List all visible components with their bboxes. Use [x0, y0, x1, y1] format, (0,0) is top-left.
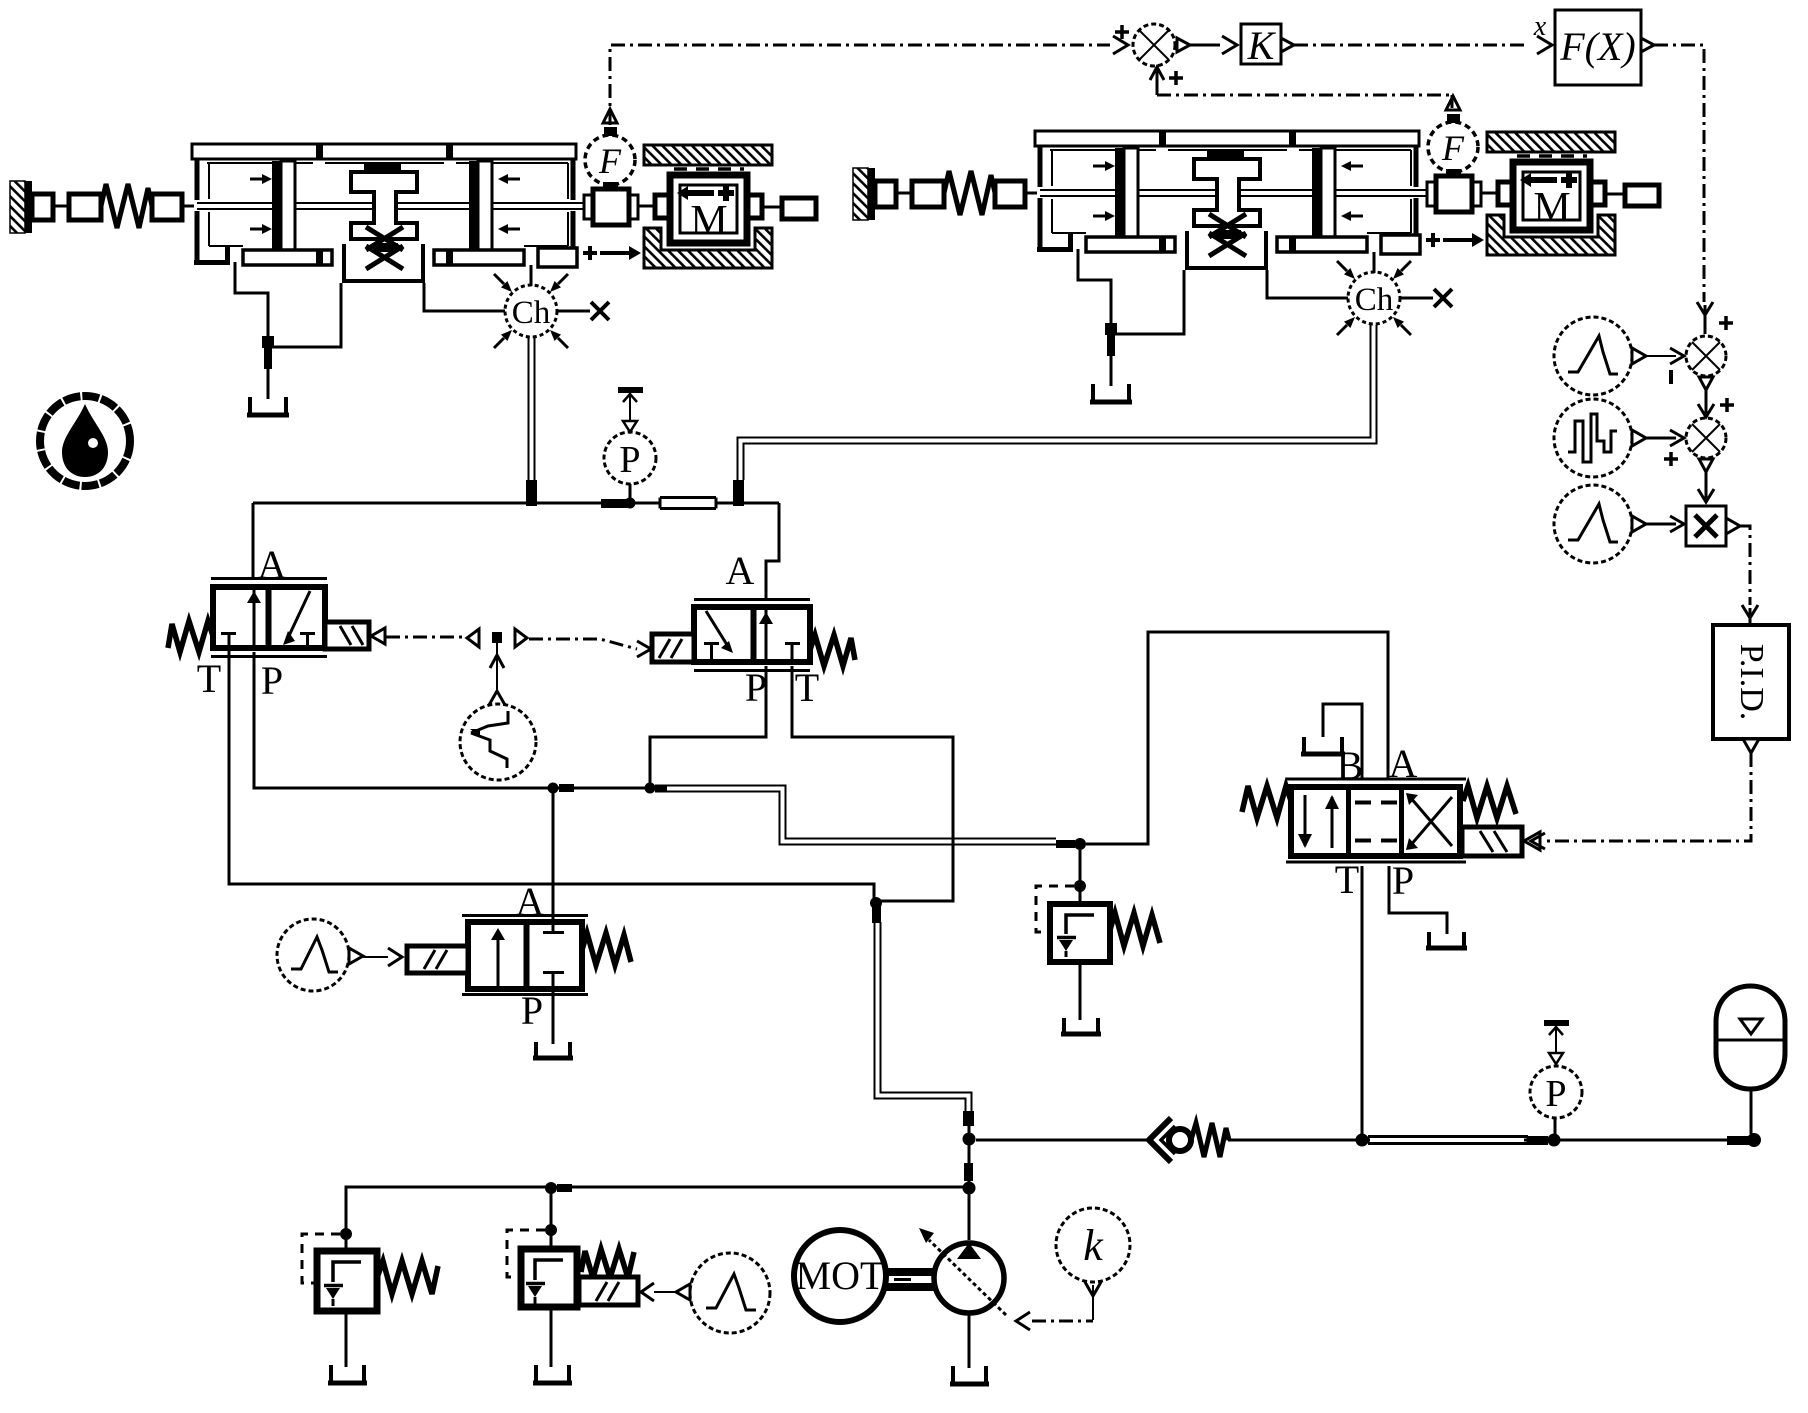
signal wire valve V2 — [529, 639, 637, 649]
svg-text:A: A — [1389, 741, 1418, 786]
relief valve RV2 signal — [641, 1283, 654, 1301]
pilot valve VA up arrow — [497, 938, 500, 989]
valve V2 closed path — [706, 611, 729, 648]
svg-text:P.I.D.: P.I.D. — [1733, 644, 1770, 721]
pressure source symbol P1 — [618, 387, 643, 393]
label plus — [1719, 316, 1733, 330]
pipe from chamber sensor Ch2 — [738, 325, 1377, 480]
signal source (piecewise) — [460, 704, 536, 780]
label plus — [1664, 452, 1678, 466]
function F(X) — [1555, 10, 1641, 85]
pipe from chamber sensor Ch1 — [529, 337, 535, 481]
label plus — [1169, 71, 1183, 85]
svg-text:MOT: MOT — [796, 1253, 885, 1298]
oil properties icon — [40, 396, 130, 486]
servo valve cell 3 cross — [1410, 797, 1452, 846]
label minus — [1669, 370, 1673, 384]
signal source k — [1056, 1208, 1130, 1282]
pipe work line to servo valve — [655, 786, 1056, 845]
node — [545, 1182, 557, 1194]
svg-text:A: A — [258, 542, 287, 587]
wire valve V2 port A riser — [766, 503, 779, 601]
orifice — [660, 498, 716, 509]
wire main supply line — [253, 502, 779, 505]
pressure source symbol P2 — [1544, 1020, 1569, 1026]
node — [1548, 1134, 1561, 1147]
pilot dashed line RV1 — [302, 1234, 340, 1283]
wire work line riser to servo valve port A — [1086, 632, 1388, 844]
svg-text:T: T — [197, 656, 221, 701]
svg-text:P: P — [521, 988, 543, 1033]
pump drain — [968, 1315, 971, 1368]
wire to relief valve RV2 — [550, 1188, 553, 1249]
servo valve solenoid — [1462, 827, 1522, 856]
node — [340, 1228, 352, 1240]
motor MOT — [794, 1230, 886, 1322]
motor shaft — [886, 1268, 936, 1276]
relief valve RV2 spring top — [581, 1249, 634, 1278]
node — [870, 897, 882, 909]
svg-text:P: P — [1392, 858, 1414, 903]
servo valve springs — [1242, 786, 1291, 818]
label plus — [1720, 398, 1734, 412]
accumulator — [1716, 986, 1785, 1089]
wire main pressure line — [976, 1139, 1356, 1142]
svg-text:P: P — [1545, 1073, 1566, 1115]
wire valve V1 port P — [254, 652, 650, 788]
ramp source R1 — [1554, 317, 1632, 395]
signal wire PID to servo solenoid — [1545, 753, 1751, 841]
right cylinder assembly — [853, 96, 1659, 403]
node — [1356, 1134, 1369, 1147]
node — [645, 783, 656, 794]
valve V2 flow arrow — [765, 607, 768, 662]
relief valve RV2 — [521, 1249, 577, 1307]
check valve — [1149, 1118, 1171, 1162]
valve V1 closed path — [287, 591, 310, 640]
wire to pilot valve VA — [552, 788, 555, 914]
pilot valve VA solenoid — [407, 946, 468, 973]
valve V2 rails — [694, 600, 810, 671]
pilot dashed line RV3 — [1036, 886, 1074, 932]
tank — [1064, 1018, 1098, 1035]
svg-text:P: P — [619, 439, 640, 481]
valve V1 spring — [168, 621, 213, 652]
pressure gauge P2 — [1530, 1066, 1582, 1118]
valve V2 T plug — [785, 644, 800, 663]
pilot valve VA spring — [582, 933, 631, 965]
svg-text:K: K — [1247, 23, 1277, 68]
summer S3 — [1686, 418, 1726, 458]
servo valve cell 1 arrows — [1304, 795, 1307, 846]
signal wire to PID — [1740, 526, 1750, 605]
ramp source R2 — [1554, 485, 1632, 563]
valve V1 solenoid — [325, 622, 369, 649]
signal wire k to pump — [1032, 1320, 1093, 1323]
wire servo B elbow — [1323, 704, 1362, 779]
pump — [934, 1243, 1004, 1313]
summer S1 — [1133, 24, 1175, 66]
ramp source for VA — [277, 919, 349, 991]
pipe pump supply riser — [875, 922, 972, 1112]
pilot valve VA body — [468, 922, 582, 989]
signal wire F1 to summer — [610, 45, 1110, 125]
ramp source for RV2 — [690, 1253, 770, 1333]
signal wire valve V1 — [371, 628, 385, 644]
relief valve RV1 spring — [377, 1261, 438, 1294]
summer S2 — [1686, 336, 1726, 376]
wire valve V1 port T to pump line — [229, 652, 874, 899]
svg-text:k: k — [1083, 1221, 1104, 1270]
pressure gauge P1 — [604, 432, 656, 484]
wire to accumulator — [1560, 1139, 1727, 1142]
wire valve V2 port P — [650, 666, 766, 784]
wire pump riser — [968, 1126, 971, 1240]
label plus — [1115, 25, 1129, 39]
tank — [1304, 737, 1342, 755]
relief valve RV3 — [1050, 904, 1110, 962]
wire valve V2 port T — [792, 666, 953, 901]
pipe segment — [1368, 1137, 1528, 1144]
tank — [536, 1042, 570, 1059]
svg-text:F(X): F(X) — [1559, 24, 1636, 69]
summer S1 output — [1177, 38, 1190, 52]
gain K — [1241, 24, 1281, 64]
node — [548, 783, 559, 794]
signal wire FX to chain — [1654, 45, 1704, 302]
svg-text:A: A — [516, 879, 545, 924]
relief valve RV2 drain — [550, 1307, 553, 1367]
servo valve rails — [1286, 779, 1466, 862]
left cylinder assembly — [10, 109, 816, 416]
valve V1 T plug — [221, 634, 236, 653]
wire to relief valve RV3 — [1079, 850, 1082, 904]
valve V2 spring — [810, 635, 855, 666]
pilot dashed line RV2 — [507, 1230, 545, 1277]
signal junction — [467, 629, 479, 647]
valve V1 flow arrow — [253, 587, 256, 648]
tank — [536, 1365, 569, 1384]
pilot valve VA drain — [552, 996, 555, 1044]
step source — [1554, 399, 1632, 477]
svg-text:T: T — [795, 665, 819, 710]
node — [1074, 838, 1086, 850]
valve V1 rails — [211, 579, 327, 657]
relief valve RV1 drain — [345, 1311, 348, 1367]
valve V2 body — [694, 607, 810, 662]
pilot valve VA plugs — [543, 917, 564, 994]
wire valve V1 port A riser — [252, 503, 255, 580]
multiplier — [1686, 506, 1726, 546]
summer S1 feedback input — [1150, 67, 1164, 80]
wire relief header — [346, 1187, 969, 1251]
wire servo valve port T drop — [1361, 866, 1364, 1134]
tank — [1429, 932, 1464, 949]
svg-text:A: A — [726, 548, 755, 593]
svg-text:T: T — [1335, 857, 1359, 902]
servo valve cell 2 plugs — [1355, 803, 1397, 841]
node P gauge tap — [629, 484, 632, 499]
node — [1074, 880, 1086, 892]
valve V1 body — [213, 587, 325, 648]
svg-text:x: x — [1533, 11, 1547, 42]
wire servo P drain — [1389, 866, 1447, 934]
pilot valve VA rails — [462, 916, 588, 995]
relief valve RV2 solenoid — [579, 1277, 638, 1305]
signal source stem — [496, 643, 498, 692]
tank — [953, 1366, 986, 1385]
relief valve RV3 drain — [1079, 962, 1082, 1020]
servo valve body — [1291, 787, 1460, 856]
controller PID — [1713, 625, 1789, 739]
signal wire K to FX — [1294, 44, 1528, 47]
svg-text:P: P — [745, 665, 767, 710]
relief valve RV1 — [317, 1251, 377, 1311]
svg-text:P: P — [261, 658, 283, 703]
valve V2 solenoid — [652, 634, 694, 662]
tank — [331, 1365, 364, 1384]
